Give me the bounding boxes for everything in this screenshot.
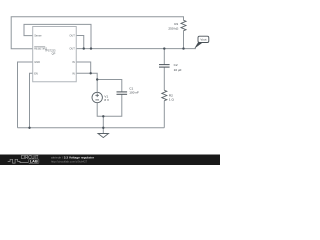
svg-text:IN: IN bbox=[72, 71, 75, 75]
svg-text:C2: C2 bbox=[174, 63, 178, 67]
svg-text:GND: GND bbox=[34, 60, 40, 64]
junction ground branch at bottom node bbox=[102, 115, 104, 117]
junction C1 branch bbox=[96, 78, 98, 80]
capacitor C2 bbox=[159, 65, 170, 68]
ground bbox=[98, 134, 109, 138]
svg-text:10 µF: 10 µF bbox=[174, 68, 182, 72]
wire RESET/PS pull-up loop to R1 top bbox=[11, 17, 183, 49]
wire bottom ground rail bbox=[18, 127, 165, 129]
wire C1 top branch bbox=[97, 80, 122, 92]
svg-text:1 Ω: 1 Ω bbox=[169, 97, 175, 101]
junction Sense loop on OUT net bbox=[90, 47, 92, 49]
wire EN pin to rail bbox=[30, 73, 33, 128]
junction ground on rail bbox=[102, 127, 104, 129]
svg-text:EN: EN bbox=[34, 71, 38, 75]
svg-text:IN: IN bbox=[72, 60, 75, 64]
wire R1 bottom lead bbox=[183, 31, 185, 49]
junction R1 on OUT net bbox=[182, 47, 184, 49]
svg-text:OUT: OUT bbox=[69, 47, 75, 51]
wire OUT pin1 stub bbox=[76, 36, 84, 49]
voltage source V1 bbox=[92, 92, 102, 102]
svg-text:250 kΩ: 250 kΩ bbox=[168, 26, 179, 30]
svg-text:QP: QP bbox=[52, 52, 56, 56]
svg-text:100 nF: 100 nF bbox=[129, 91, 139, 95]
svg-text:8 V: 8 V bbox=[104, 98, 110, 102]
wire ground branch bbox=[102, 116, 104, 133]
junction EN on rail bbox=[28, 127, 30, 129]
capacitor C1 bbox=[117, 92, 128, 94]
op-amp U1 TPS7233QP regulator box bbox=[33, 27, 77, 82]
resistor R1 bbox=[181, 20, 186, 30]
junction OUT pin1/pin2 bbox=[83, 47, 85, 49]
footer bar bbox=[0, 155, 220, 166]
node flag Vout bbox=[195, 36, 209, 48]
wire IN pin3 stub bbox=[76, 62, 90, 73]
svg-text:http://circuitlab.com/c/9cb427: http://circuitlab.com/c/9cb427 bbox=[51, 159, 88, 163]
wire V1 minus to bottom node bbox=[97, 94, 122, 116]
footer CircuitLab logo bbox=[8, 155, 39, 164]
wire Sense loop to OUT node bbox=[24, 24, 91, 48]
wire C2 branch bbox=[163, 49, 165, 128]
svg-text:Vout: Vout bbox=[200, 38, 206, 42]
wire OUT main net bbox=[76, 48, 196, 50]
wire IN pin4 to V1 plus bbox=[76, 73, 97, 92]
wire GND pin to rail bbox=[18, 62, 33, 128]
svg-text:LAB: LAB bbox=[30, 160, 38, 164]
junction IN pin3/pin4 bbox=[90, 72, 92, 74]
svg-text:OUT: OUT bbox=[69, 34, 75, 38]
junction C2 on OUT net bbox=[163, 47, 165, 49]
resistor R2 bbox=[162, 90, 167, 100]
svg-text:Sense: Sense bbox=[34, 34, 42, 38]
